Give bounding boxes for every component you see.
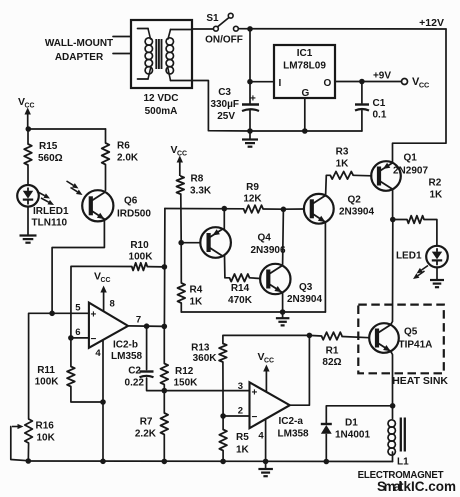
wire Vcc junction to R6 column [28, 128, 105, 130]
label pin 8 [110, 299, 115, 310]
svg-text:TIP41A: TIP41A [399, 340, 433, 351]
svg-text:3.3K: 3.3K [190, 186, 212, 197]
resistor R14 [230, 274, 250, 282]
label R9 12K [243, 182, 262, 205]
node +9V junction [359, 79, 365, 85]
svg-text:Q2: Q2 [348, 195, 362, 206]
wire C2 bottom [147, 378, 165, 391]
capacitor C2 [140, 372, 154, 378]
label pin 7 [136, 315, 141, 326]
svg-text:R14: R14 [231, 283, 250, 294]
IC2-b plus [91, 310, 97, 321]
wire Q4 emitter up [223, 209, 225, 230]
ground symbol main [258, 461, 273, 476]
svg-text:IC2-a: IC2-a [279, 416, 304, 427]
transistor Q1 2N2907 [371, 161, 401, 191]
capacitor C1 [355, 105, 369, 111]
svg-text:+: + [252, 388, 258, 399]
svg-text:LM358: LM358 [111, 351, 143, 362]
svg-text:O: O [324, 78, 332, 89]
node feedback junction R1 [307, 333, 313, 339]
svg-text:R15: R15 [39, 141, 58, 152]
resistor R3 [330, 172, 353, 180]
label ON/OFF [205, 35, 243, 46]
svg-text:WALL-MOUNT: WALL-MOUNT [45, 38, 113, 49]
resistor R12 [161, 326, 169, 390]
node rail R5 [220, 459, 226, 465]
wire S1 junction down to IC1 input [249, 29, 251, 104]
label R5 1K [236, 432, 250, 456]
svg-text:Q3: Q3 [299, 282, 313, 293]
label LM358 a [278, 429, 310, 440]
node R11 bottom junction [100, 399, 106, 405]
wire R8 to Q4 base node [180, 194, 182, 243]
wire pin5 [52, 312, 89, 314]
wire adapter stub bottom [113, 53, 131, 55]
wire feedback R13 [223, 335, 310, 343]
svg-text:+9V: +9V [373, 71, 391, 82]
wire IRLED1 to ground [27, 207, 29, 236]
transistor Q5 TIP41A [369, 323, 399, 353]
transformer T1 box [131, 20, 192, 88]
wire node column [163, 209, 166, 327]
label 12 VDC 500mA [143, 93, 178, 117]
label Vcc IC2-a [258, 351, 275, 365]
svg-text:R3: R3 [336, 147, 349, 158]
resistor R5 [219, 416, 227, 462]
label Q4 [258, 233, 272, 244]
svg-text:Q5: Q5 [404, 327, 418, 338]
svg-text:Q1: Q1 [404, 153, 418, 164]
wire IC1 output to Vcc terminal [335, 81, 402, 83]
wire transformer to S1 [192, 28, 214, 30]
svg-text:D1: D1 [345, 418, 358, 429]
svg-text:I: I [279, 78, 282, 89]
svg-text:+: + [91, 310, 97, 321]
wire pin3 [164, 390, 249, 392]
wire +9V to C1 [361, 82, 363, 104]
node S1 output junction [247, 26, 253, 32]
svg-text:500mA: 500mA [145, 106, 178, 117]
ground symbol IRLED1 [20, 236, 37, 243]
capacitor C3 [242, 94, 259, 112]
svg-text:4: 4 [95, 348, 101, 359]
label C1 [373, 98, 387, 121]
Vcc arrow IC2-b [100, 286, 106, 312]
svg-text:+: + [250, 94, 256, 105]
label IRLED1 [32, 206, 70, 229]
label D1 [345, 418, 358, 429]
ground rail under IC1 [250, 130, 362, 132]
label R2 1K [429, 178, 444, 201]
label pin 2 [238, 406, 243, 417]
label +9V [373, 71, 391, 82]
label 2N3904 q3 [287, 294, 322, 305]
svg-text:ON/OFF: ON/OFF [205, 35, 243, 46]
svg-text:25V: 25V [217, 111, 235, 122]
ground symbol Q3 [276, 312, 290, 325]
watermark [377, 479, 456, 494]
label R6 2.0K [117, 141, 139, 164]
svg-text:IC2-b: IC2-b [113, 340, 138, 351]
node rail D1 [324, 459, 330, 465]
label pin 5 [75, 303, 81, 314]
svg-text:10K: 10K [37, 433, 56, 444]
node Q4 emitter junction [222, 206, 228, 212]
svg-text:L1: L1 [397, 457, 409, 468]
svg-text:R4: R4 [190, 285, 203, 296]
svg-text:G: G [302, 88, 310, 99]
wire R9 to Q2 base node [263, 208, 283, 210]
label wall-mount adapter [45, 38, 113, 63]
label R10 100K [129, 240, 154, 263]
label 2N2907 [393, 166, 428, 177]
svg-text:0.22: 0.22 [125, 378, 145, 389]
svg-text:CC: CC [419, 81, 430, 90]
label pin 3 [238, 381, 243, 392]
svg-text:2: 2 [238, 406, 243, 417]
svg-text:IRLED1: IRLED1 [33, 206, 69, 217]
label HEAT SINK [392, 375, 448, 387]
resistor R13 [219, 344, 227, 417]
svg-text:1K: 1K [336, 159, 350, 170]
label Q1 [404, 153, 418, 164]
node pin2 junction [220, 413, 226, 419]
pin G [302, 88, 310, 99]
svg-text:8: 8 [110, 299, 115, 310]
svg-text:R5: R5 [236, 432, 249, 443]
label LED1 [396, 251, 422, 262]
label R14 470K [228, 283, 253, 306]
wire LED1 to ground [436, 267, 438, 279]
potentiometer R16 [25, 419, 33, 462]
wire R3 to Q1 base [353, 174, 371, 177]
wire C3 to ground rail [249, 111, 251, 132]
svg-text:1K: 1K [236, 445, 250, 456]
diode D1 1N4001 [321, 424, 332, 462]
svg-text:LM78L09: LM78L09 [283, 61, 326, 72]
label Q5 [404, 327, 418, 338]
wire junction to R2 [393, 219, 407, 221]
wire junction to R1 [309, 334, 321, 337]
label Q2 [348, 195, 362, 206]
resistor R8 [177, 176, 185, 194]
wire Q4 collector down [225, 256, 230, 278]
svg-text:7: 7 [136, 315, 141, 326]
svg-text:+12V: +12V [419, 17, 444, 29]
resistor R10 [132, 263, 148, 271]
wire Q6 emitter path [52, 219, 104, 313]
wire R9 node line [165, 208, 244, 210]
label C2 0.22 [125, 366, 145, 389]
resistor R11 [67, 338, 103, 402]
svg-text:CC: CC [177, 151, 187, 158]
terminal Vcc output [402, 79, 408, 85]
node C2 junction [144, 323, 150, 329]
wire pin7 output [128, 325, 164, 328]
node Q1 collector junction [390, 217, 396, 223]
svg-text:2N2907: 2N2907 [393, 166, 428, 177]
wire pin6 [71, 337, 89, 339]
wire adapter stub top [113, 36, 131, 38]
label Vcc mid [171, 144, 188, 158]
label +12V [419, 17, 444, 29]
inductor L1 coil [388, 420, 395, 462]
transistor Q4 2N3906 [200, 227, 231, 258]
R16 wiper [11, 424, 28, 461]
wire D1 branch top [326, 406, 392, 423]
svg-text:R13: R13 [191, 343, 210, 354]
wire Q2 emitter down [324, 222, 326, 312]
svg-text:1N4001: 1N4001 [335, 430, 370, 441]
label 2N3906 [251, 245, 286, 256]
wire IC2-a output [290, 335, 310, 405]
label IC2-a [279, 416, 304, 427]
Vcc arrow IC2-a [263, 365, 269, 392]
node R16 bottom [26, 458, 32, 464]
IC2-a minus [252, 412, 258, 423]
svg-text:1K: 1K [190, 297, 204, 308]
wire R1 to Q5 base [342, 337, 369, 338]
ground symbol C3 [242, 131, 258, 147]
svg-text:560Ω: 560Ω [38, 153, 63, 164]
svg-text:HEAT SINK: HEAT SINK [392, 375, 448, 387]
resistor R7 [161, 391, 169, 462]
IC1 LM78L09 box [274, 45, 335, 98]
svg-text:R2: R2 [429, 178, 442, 189]
wire IC1 G pin [304, 98, 306, 131]
wire pin2 [223, 415, 249, 417]
L1 core bars [401, 418, 405, 452]
label LM358 b [111, 351, 143, 362]
svg-text:4: 4 [258, 431, 264, 442]
heat sink dashed box [358, 305, 444, 374]
svg-text:150K: 150K [174, 377, 199, 388]
wire mid rail [181, 311, 325, 313]
svg-text:Q4: Q4 [258, 233, 272, 244]
svg-text:2N3906: 2N3906 [251, 245, 286, 256]
node pin5 junction [49, 311, 55, 317]
svg-text:C3: C3 [218, 87, 231, 98]
node Q3 emitter junction [280, 309, 286, 315]
LED1 emission arrows [413, 266, 428, 280]
label Q6 [124, 196, 138, 207]
label LM78L09 [283, 61, 326, 72]
svg-text:CC: CC [25, 103, 35, 110]
svg-text:2N3904: 2N3904 [287, 294, 322, 305]
svg-text:470K: 470K [228, 295, 253, 306]
resistor R4 [178, 243, 186, 312]
svg-text:100K: 100K [35, 376, 60, 387]
wire R14 to Q3 base [250, 277, 261, 280]
svg-text:LM358: LM358 [278, 429, 310, 440]
label C3 value [210, 87, 239, 122]
resistor R15 [24, 129, 32, 185]
label R8 3.3K [190, 174, 212, 197]
label R3 1K [336, 147, 350, 170]
IC2-b minus [91, 334, 97, 345]
transistor Q3 2N3904 [260, 264, 290, 294]
resistor R9 [244, 205, 264, 213]
transformer T1 core [156, 39, 161, 69]
svg-text:−: − [252, 412, 258, 423]
svg-text:5: 5 [75, 303, 81, 314]
node R10 junction [162, 264, 168, 270]
wire C1 to ground rail [361, 111, 363, 132]
label R12 150K [174, 366, 199, 388]
wire R10 left [71, 266, 132, 338]
resistor R2 [407, 216, 424, 224]
Q6 light arrows [67, 181, 83, 195]
svg-text:IRD500: IRD500 [117, 209, 151, 220]
label L1 [397, 457, 409, 468]
label pin 4 b [95, 348, 101, 359]
svg-text:12 VDC: 12 VDC [143, 93, 178, 104]
label pin 6 [75, 327, 80, 338]
svg-text:1K: 1K [430, 190, 444, 201]
svg-text:360K: 360K [193, 353, 218, 364]
node R12 top junction [162, 324, 168, 330]
svg-text:Q6: Q6 [124, 196, 138, 207]
wire transformer return [192, 81, 250, 132]
node C3 ground junction [247, 128, 253, 134]
node G junction [302, 128, 308, 134]
svg-text:LED1: LED1 [396, 251, 422, 262]
op-amp IC2-a triangle [250, 382, 290, 428]
label Vcc right [412, 76, 430, 90]
svg-text:R8: R8 [191, 174, 204, 185]
svg-text:0.1: 0.1 [373, 110, 387, 121]
wire pin4 IC2-b [102, 341, 104, 462]
svg-text:R10: R10 [130, 240, 149, 251]
label Vcc IC2-b [94, 271, 111, 285]
svg-text:C2: C2 [128, 366, 141, 377]
pin I [279, 78, 282, 89]
label S1 [206, 13, 219, 24]
label Q3 [299, 282, 313, 293]
label IC2-b [113, 340, 138, 351]
svg-text:R9: R9 [246, 182, 259, 193]
wire +12V down to Q1 emitter [393, 29, 447, 163]
svg-text:R12: R12 [175, 366, 194, 377]
node Q4 base junction [178, 240, 184, 246]
label 1N4001 [335, 430, 370, 441]
wire pin5 to R16 [29, 313, 52, 419]
wire Q3 emitter down [282, 293, 284, 312]
svg-text:C1: C1 [373, 98, 386, 109]
node Vcc-R15 junction [26, 126, 32, 132]
svg-text:2.2K: 2.2K [135, 428, 157, 439]
wire C2 top [146, 326, 148, 369]
wire R10 right [147, 266, 164, 268]
Vcc arrow left [25, 108, 31, 130]
label R7 2.2K [135, 417, 157, 440]
label TIP41A [399, 340, 433, 351]
svg-text:TLN110: TLN110 [32, 218, 68, 229]
label R1 82 [322, 346, 341, 369]
node pin3 junction [162, 388, 168, 394]
node Q2 base junction [281, 207, 287, 213]
resistor R6 [102, 129, 110, 190]
node rail pin4a [263, 459, 269, 465]
svg-text:tkIC.com: tkIC.com [399, 479, 456, 494]
svg-text:Smal: Smal [377, 479, 401, 494]
transformer T1 secondary coil [166, 30, 192, 81]
label IC1 [297, 48, 313, 59]
label IRD500 [117, 209, 151, 220]
op-amp IC2-b triangle [89, 303, 128, 348]
svg-text:2N3904: 2N3904 [339, 207, 374, 218]
label R15 560 [38, 141, 63, 164]
node rail R7 [162, 459, 168, 465]
label R13 360K [191, 343, 217, 365]
svg-text:82Ω: 82Ω [322, 357, 341, 368]
wire R2 to LED1 [424, 220, 437, 247]
wire Q1 collector down [392, 189, 394, 219]
IC2-a plus [252, 388, 258, 399]
svg-text:R16: R16 [36, 421, 55, 432]
transistor Q2 2N3904 [304, 194, 334, 224]
Vcc arrow mid [177, 156, 183, 177]
label R11 100K [35, 365, 60, 387]
LED1 symbol [426, 246, 448, 268]
svg-text:R1: R1 [326, 346, 339, 357]
wire Q5 emitter down [391, 351, 393, 418]
svg-text:S1: S1 [206, 13, 219, 24]
switch S1 [214, 13, 239, 31]
svg-text:12K: 12K [243, 194, 262, 205]
svg-text:−: − [91, 334, 97, 345]
svg-text:2.0K: 2.0K [117, 153, 139, 164]
label pin 4 a [258, 431, 264, 442]
wire Q4 base [181, 242, 200, 244]
wire S1 to +12V corner [238, 28, 446, 30]
IRLED1 emission arrows [37, 192, 54, 206]
transformer T1 primary coil [138, 29, 153, 80]
ground symbol LED1 [430, 280, 444, 287]
label R16 10K [36, 421, 56, 444]
svg-text:R7: R7 [140, 417, 153, 428]
pin O [324, 78, 332, 89]
svg-text:ADAPTER: ADAPTER [55, 52, 104, 63]
label ELECTROMAGNET [358, 470, 444, 481]
wire pin4 IC2-a [265, 419, 267, 461]
resistor R1 [322, 332, 343, 340]
label Vcc top-left [18, 96, 35, 110]
node IC1 input junction [247, 79, 253, 85]
transistor Q6 IRD500 [82, 190, 113, 221]
node rail pin4b [100, 459, 106, 465]
wire Q1 to Q5 collector [391, 220, 393, 325]
IRLED1 symbol [17, 185, 39, 207]
svg-text:R11: R11 [37, 365, 55, 376]
svg-text:330µF: 330µF [210, 99, 239, 110]
svg-text:CC: CC [264, 358, 274, 365]
bottom rail wire [28, 460, 392, 463]
wire Q3 collector up [282, 209, 285, 264]
wire Q2 base [283, 208, 304, 210]
svg-text:6: 6 [75, 327, 80, 338]
svg-text:IC1: IC1 [297, 48, 313, 59]
wire Q2 collector up [326, 175, 331, 195]
svg-text:100K: 100K [129, 252, 154, 263]
label R4 1K [190, 285, 204, 308]
wire into IC1 I pin [250, 81, 274, 83]
node pin6 junction [68, 335, 74, 341]
label 2N3904 q2 [339, 207, 374, 218]
node D1 top junction [390, 403, 396, 409]
svg-text:CC: CC [101, 277, 111, 284]
